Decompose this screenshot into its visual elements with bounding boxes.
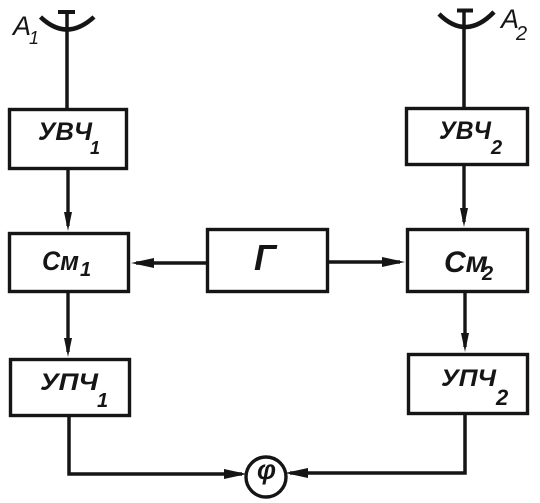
block См1 xyxy=(10,234,129,292)
svg-text:1: 1 xyxy=(29,28,39,48)
block УВЧ1 xyxy=(10,110,127,169)
block Г xyxy=(208,230,328,292)
phase detector Ф xyxy=(246,455,286,497)
block УПЧ2 xyxy=(409,355,528,414)
svg-text:2: 2 xyxy=(495,385,509,410)
label A1 xyxy=(11,11,39,48)
wire Г to См1 (arrow left) xyxy=(131,258,206,268)
antenna A2 xyxy=(439,11,494,28)
svg-text:1: 1 xyxy=(97,390,108,412)
label A2 xyxy=(499,4,527,45)
wire См2 to УПЧ2 (arrow) xyxy=(461,293,469,352)
svg-text:УВЧ: УВЧ xyxy=(38,118,93,146)
wire УПЧ2 down and left to Ф (arrow) xyxy=(285,413,465,478)
svg-text:2: 2 xyxy=(481,263,493,285)
svg-text:УПЧ: УПЧ xyxy=(441,365,497,392)
svg-text:См: См xyxy=(42,246,79,276)
wire antenna A1 to УВЧ1 xyxy=(65,12,69,108)
svg-text:2: 2 xyxy=(515,23,527,45)
block УПЧ1 xyxy=(11,360,130,416)
wire См1 to УПЧ1 (arrow) xyxy=(64,293,72,357)
svg-text:Г: Г xyxy=(254,237,278,278)
svg-text:φ: φ xyxy=(257,455,276,485)
wire УВЧ2 to См2 (arrow) xyxy=(460,165,468,227)
block УВЧ2 xyxy=(407,109,528,165)
wire УВЧ1 to См1 (arrow) xyxy=(64,169,72,231)
svg-text:УВЧ: УВЧ xyxy=(439,117,492,145)
svg-text:1: 1 xyxy=(90,138,100,158)
wire antenna A2 to УВЧ2 xyxy=(462,11,466,107)
svg-text:УПЧ: УПЧ xyxy=(40,369,99,396)
block См2 xyxy=(408,230,528,292)
antenna A1 xyxy=(41,12,95,30)
svg-text:1: 1 xyxy=(80,259,91,281)
svg-text:A: A xyxy=(11,11,31,41)
wire УПЧ1 down and right to Ф (arrow) xyxy=(69,416,247,479)
svg-text:2: 2 xyxy=(490,137,502,159)
wire Г to См2 (arrow right) xyxy=(329,257,405,267)
